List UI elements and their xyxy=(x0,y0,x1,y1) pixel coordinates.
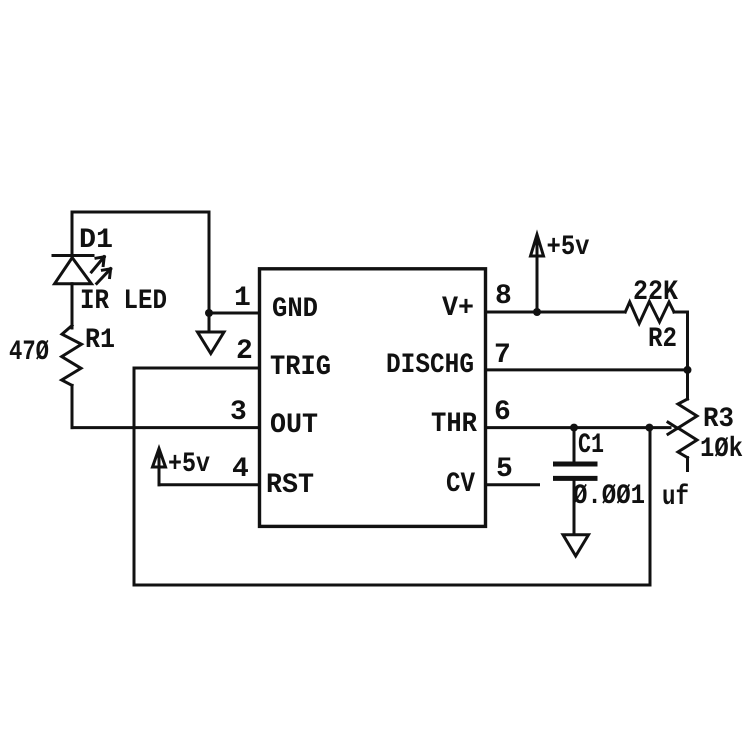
wire bottom right vertical up to THR net xyxy=(649,428,652,585)
capacitor C1 xyxy=(556,428,596,535)
svg-text:V+: V+ xyxy=(442,293,474,324)
svg-text:2: 2 xyxy=(236,336,253,367)
svg-text:D1: D1 xyxy=(79,225,113,256)
power +5v arrow at V+ xyxy=(531,235,544,257)
resistor R3 potentiometer xyxy=(678,399,697,458)
wire pin8 V+ to R2 xyxy=(486,311,626,314)
node junction at V+ xyxy=(533,308,541,316)
diode D1 (IR LED) xyxy=(53,256,111,284)
ground symbol at C1 xyxy=(563,535,589,556)
svg-text:THR: THR xyxy=(431,409,477,440)
wire TRIG down left side xyxy=(133,368,136,585)
svg-text:6: 6 xyxy=(494,397,511,428)
node junction at pin1 GND xyxy=(205,309,213,317)
resistor R1 xyxy=(62,326,82,386)
wire top horizontal from D1 top to pin1 drop xyxy=(72,211,209,214)
svg-text:5: 5 xyxy=(496,454,513,485)
svg-text:R2: R2 xyxy=(648,324,677,355)
svg-text:47Ø: 47Ø xyxy=(9,337,49,368)
wire D1 top lead xyxy=(71,212,74,257)
op-amp U1 555 timer body xyxy=(260,269,486,527)
node junction at DISCHG xyxy=(684,366,692,374)
wire pin6 THR to R3 wiper xyxy=(486,426,671,429)
wire pin7 DISCHG xyxy=(486,368,688,371)
resistor R2 xyxy=(625,302,674,324)
ground symbol at pin1 xyxy=(198,332,225,354)
wire R3 bottom lead xyxy=(686,458,689,471)
wire +5v riser xyxy=(536,236,539,312)
wire D1 to R1 xyxy=(71,284,74,328)
svg-text:DISCHG: DISCHG xyxy=(386,350,474,381)
svg-text:22K: 22K xyxy=(633,277,678,308)
wire R2 to DISCHG corner xyxy=(674,312,688,370)
wire pin1 stub to chip xyxy=(209,312,259,315)
svg-text:3: 3 xyxy=(230,397,247,428)
svg-text:R1: R1 xyxy=(85,325,115,356)
svg-text:1: 1 xyxy=(234,283,251,314)
svg-text:RST: RST xyxy=(266,470,314,501)
svg-text:4: 4 xyxy=(232,454,249,485)
wire bottom horizontal xyxy=(134,584,650,587)
wiper arrow into R3 xyxy=(668,422,678,434)
svg-text:+5v: +5v xyxy=(168,449,210,480)
svg-text:8: 8 xyxy=(495,281,512,312)
svg-text:IR LED: IR LED xyxy=(80,286,167,317)
power +5v arrow at RST xyxy=(158,450,161,485)
svg-text:R3: R3 xyxy=(703,404,734,435)
wire stub down to ground xyxy=(208,313,211,332)
svg-text:TRIG: TRIG xyxy=(270,352,331,383)
svg-text:Ø.ØØ1: Ø.ØØ1 xyxy=(573,481,645,512)
wire RST to +5v xyxy=(159,483,259,486)
wire pin3 OUT xyxy=(72,426,259,429)
svg-text:CV: CV xyxy=(446,469,475,500)
wire pin2 TRIG xyxy=(134,367,259,370)
svg-text:GND: GND xyxy=(272,294,318,325)
svg-text:C1: C1 xyxy=(578,430,604,461)
wire R1 bottom to OUT xyxy=(71,385,74,427)
node junction THR and C1 xyxy=(570,424,578,432)
svg-text:7: 7 xyxy=(494,340,511,371)
wire DISCHG to R3 xyxy=(686,370,689,399)
svg-text:1Øk: 1Øk xyxy=(700,434,743,465)
node junction THR and bottom wire xyxy=(645,424,653,432)
svg-text:+5v: +5v xyxy=(547,232,590,263)
wire vertical drop to pin1 junction xyxy=(208,212,211,313)
svg-text:OUT: OUT xyxy=(270,410,318,441)
wire pin5 CV stub xyxy=(486,483,539,486)
svg-text:uf: uf xyxy=(662,482,689,513)
